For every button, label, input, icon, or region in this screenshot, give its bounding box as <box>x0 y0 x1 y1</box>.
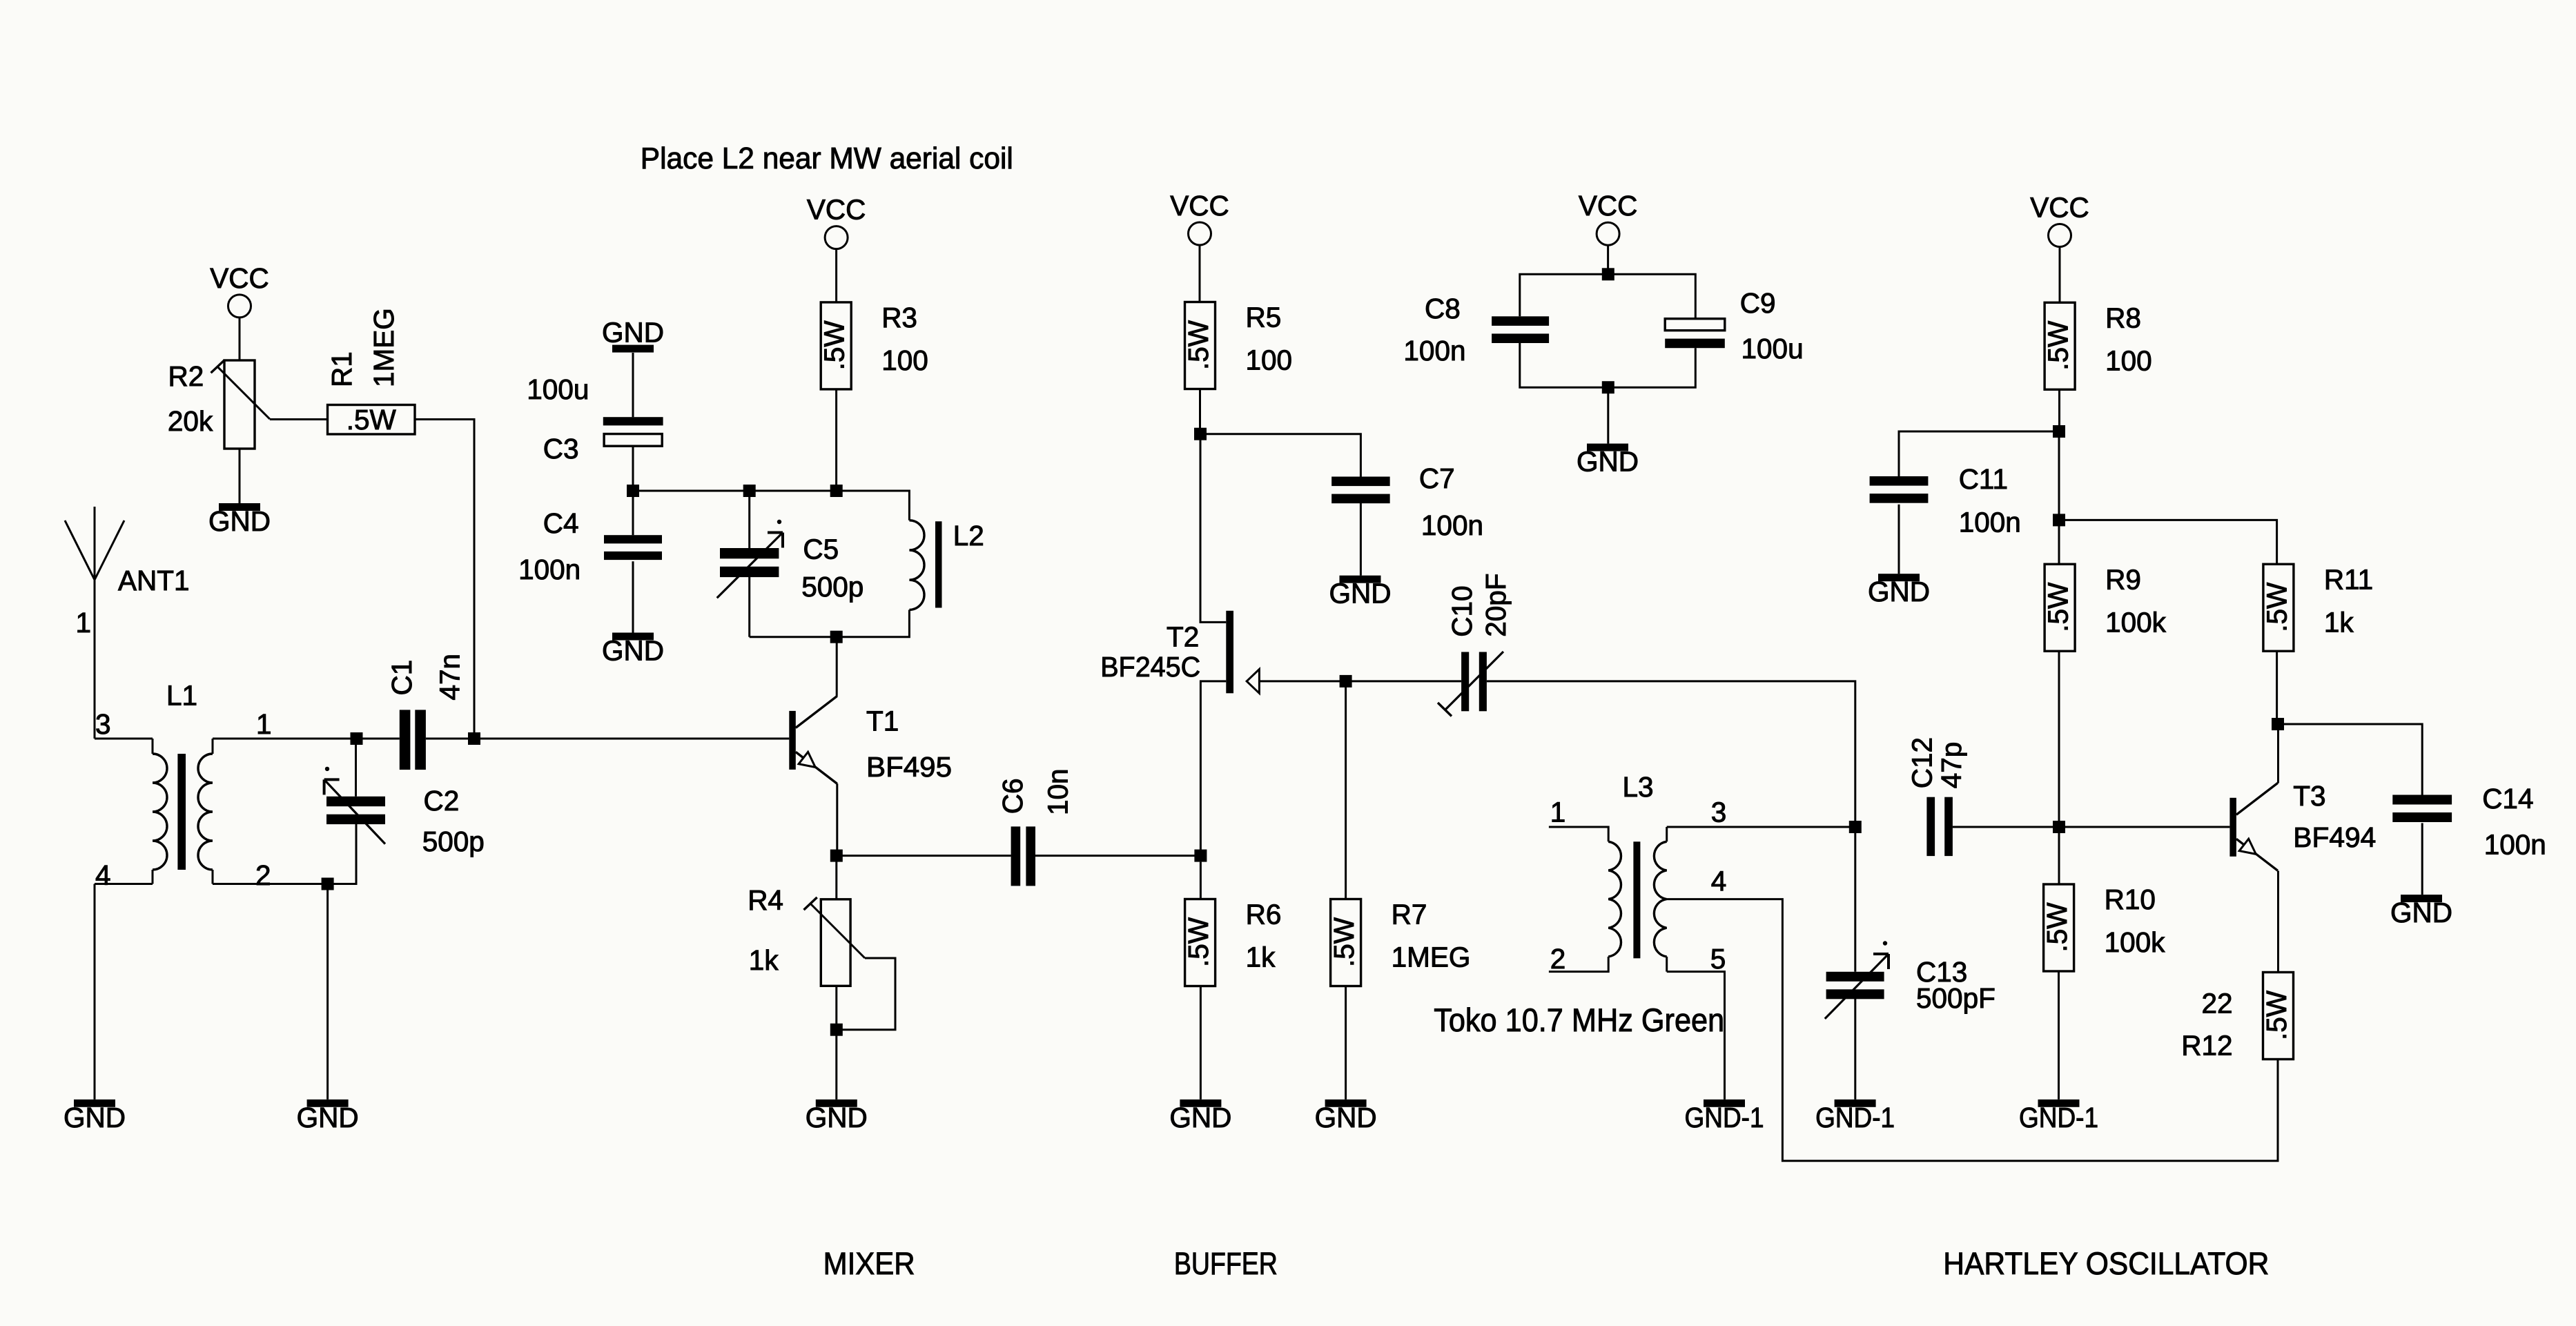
wire C5 bottom <box>748 575 750 636</box>
ground GND symbol (below R4) <box>806 1100 868 1133</box>
wire node to C7 <box>1200 434 1360 477</box>
label C8 100n <box>1403 293 1465 367</box>
capacitor C4 (100n) plates <box>604 535 662 560</box>
svg-text:GND: GND <box>208 505 271 537</box>
svg-text:.5W: .5W <box>2041 902 2073 953</box>
transistor T3 (BF494) NPN <box>2229 783 2278 870</box>
wire node to R9 <box>2058 520 2060 564</box>
junction node R11/T3-collector/C14 node <box>2272 718 2284 730</box>
wire node to C13 <box>1854 827 1856 972</box>
label C12 47p <box>1906 737 1968 788</box>
svg-text:20k: 20k <box>168 405 213 437</box>
svg-text:1: 1 <box>256 708 272 740</box>
junction node C2 top node <box>351 732 363 745</box>
svg-text:C8: C8 <box>1425 293 1461 324</box>
junction node C5 top node <box>743 485 756 497</box>
transistor T1 (BF495) NPN <box>789 696 837 783</box>
wire emitter node to R4 <box>835 856 837 899</box>
ground GND symbol (below L1 pin4) <box>64 1100 126 1133</box>
svg-text:1k: 1k <box>749 944 779 976</box>
wire T2 gate line <box>1259 680 1461 682</box>
svg-text:C4: C4 <box>543 507 579 539</box>
capacitor C14 (100n) plates <box>2392 795 2452 823</box>
label C4 100n <box>518 507 580 585</box>
wire VCC to R2 <box>239 318 241 360</box>
wire node down to T2 drain <box>1200 434 1226 623</box>
svg-text:R12: R12 <box>2181 1030 2232 1062</box>
L3 right coil <box>1654 841 1666 957</box>
svg-text:C5: C5 <box>803 533 839 565</box>
svg-text:C10: C10 <box>1446 586 1478 637</box>
svg-text:C7: C7 <box>1419 462 1455 494</box>
wire R6 to GND <box>1200 986 1202 1100</box>
ground GND symbol (below C2) <box>297 1100 359 1133</box>
svg-text:5: 5 <box>1710 943 1726 975</box>
label C13 500pF <box>1916 956 1996 1014</box>
svg-text:100u: 100u <box>1741 333 1804 364</box>
variable arrow of C5 <box>717 520 783 598</box>
capacitor C10 (20pF) trimmer plates <box>1461 652 1487 712</box>
svg-text:C1: C1 <box>386 660 418 696</box>
svg-text:.5W: .5W <box>2261 990 2292 1040</box>
svg-text:1k: 1k <box>2324 606 2354 638</box>
L3 core bar <box>1633 841 1640 958</box>
svg-text:R4: R4 <box>748 884 783 916</box>
ground GND symbol (below C8/C9) <box>1577 444 1639 478</box>
label R5 100 <box>1246 302 1293 376</box>
potentiometer R4 wiper arrow <box>804 897 866 958</box>
capacitor C13 (500pF) variable plates <box>1826 972 1884 1000</box>
variable arrow of C2 <box>324 767 385 844</box>
label C6 10n <box>997 768 1074 815</box>
svg-text:2: 2 <box>1550 943 1566 975</box>
ground GND symbol (below R2) <box>208 503 271 537</box>
svg-text:C11: C11 <box>1959 463 2008 495</box>
wire R7 to GND <box>1345 986 1347 1100</box>
svg-text:GND-1: GND-1 <box>1685 1102 1764 1133</box>
svg-text:2: 2 <box>255 859 271 891</box>
svg-text:BF495: BF495 <box>866 751 952 783</box>
junction node GND bus node <box>1602 381 1614 393</box>
svg-text:.5W: .5W <box>2261 582 2292 632</box>
ground GND symbol (above C3) <box>602 317 664 353</box>
wire R2 bottom to GND <box>239 449 241 503</box>
wire L3 pin3 to junction <box>1667 826 1855 828</box>
svg-text:.5W: .5W <box>2042 582 2074 632</box>
label C14 100n <box>2482 783 2546 860</box>
wire C3 to bus node <box>632 446 634 491</box>
power VCC symbol (above R2) <box>210 262 269 318</box>
svg-text:Toko 10.7 MHz Green: Toko 10.7 MHz Green <box>1434 1002 1724 1038</box>
L3 pin1 wire <box>1549 827 1608 841</box>
svg-text:R6: R6 <box>1246 899 1282 930</box>
wire C10 to oscillator <box>1487 681 1855 827</box>
svg-text:GND: GND <box>602 317 664 349</box>
capacitor C5 (500p) variable plates <box>720 548 779 577</box>
wire GND to C3 <box>632 353 634 417</box>
wire node to R10 <box>2058 827 2060 884</box>
transistor T2 (BF245C) N-JFET <box>1200 611 1259 856</box>
svg-text:3: 3 <box>1711 796 1727 828</box>
svg-text:100n: 100n <box>1403 335 1465 367</box>
svg-text:GND-1: GND-1 <box>2019 1102 2098 1133</box>
svg-text:R9: R9 <box>2105 563 2141 595</box>
svg-text:VCC: VCC <box>210 262 269 294</box>
svg-text:GND: GND <box>1577 446 1639 478</box>
label R1 1MEG <box>326 308 400 387</box>
C8/C9 bottom bus wire <box>1520 342 1696 388</box>
resistor R5 (100) body <box>1182 302 1216 389</box>
L3 pin5 stub <box>1666 957 1668 972</box>
wire T1 emitter down <box>836 783 838 855</box>
svg-text:100n: 100n <box>1421 509 1483 541</box>
resistor R9 (100k) body <box>2042 564 2076 651</box>
wire C4 to GND <box>632 561 634 632</box>
junction node R4 wiper tie node <box>830 1024 843 1036</box>
svg-text:GND: GND <box>1169 1102 1231 1133</box>
label R2 20k <box>168 360 213 437</box>
wire C6 to T2 source node <box>1035 855 1200 857</box>
wire C1 to T1 base <box>426 738 789 740</box>
potentiometer R4 (1k) body <box>821 899 850 986</box>
C8/C9 top bus wire <box>1520 274 1696 318</box>
svg-text:47p: 47p <box>1935 742 1967 789</box>
svg-text:R11: R11 <box>2324 563 2373 595</box>
svg-text:T3: T3 <box>2293 780 2325 812</box>
svg-text:20pF: 20pF <box>1480 573 1512 636</box>
svg-text:C3: C3 <box>543 433 579 465</box>
label T2 BF245C <box>1100 621 1200 683</box>
svg-text:R2: R2 <box>168 360 204 392</box>
junction node pin3/C12/C13 cross node <box>1849 821 1862 833</box>
svg-text:1MEG: 1MEG <box>368 308 400 387</box>
wire tank bus to R3 <box>633 490 837 492</box>
power VCC symbol (above R8) <box>2030 192 2089 247</box>
junction node L2 bottom / T1 collector node <box>830 631 843 643</box>
svg-text:100k: 100k <box>2105 606 2167 638</box>
svg-text:100: 100 <box>881 344 928 376</box>
svg-text:.5W: .5W <box>1182 917 1214 967</box>
junction node R5/C7/T2-drain node <box>1194 428 1207 440</box>
wire branch to R11 <box>2059 520 2277 564</box>
resistor R10 (100k) body <box>2041 884 2074 971</box>
svg-text:.5W: .5W <box>2042 320 2074 371</box>
wire L1 pin1 to C1 <box>213 738 400 740</box>
capacitor C11 (100n) plates <box>1870 476 1929 503</box>
antenna ANT1 <box>65 507 124 580</box>
svg-text:GND: GND <box>1868 576 1930 607</box>
capacitor C7 (100n) plates <box>1331 477 1390 504</box>
label C10 20pF <box>1446 573 1512 636</box>
svg-text:GND: GND <box>64 1102 126 1133</box>
transformer L1 <box>95 739 213 884</box>
wire bus to GND <box>1607 387 1609 443</box>
wire L1 pin4 to GND <box>94 884 96 1100</box>
capacitor C2 (500p) variable plates <box>326 797 385 824</box>
wire R4 bottom <box>835 986 837 1029</box>
L3 left coil <box>1608 841 1621 957</box>
svg-text:BF494: BF494 <box>2293 821 2376 853</box>
svg-text:100: 100 <box>2105 344 2152 376</box>
wire VCC to bus <box>1607 245 1609 274</box>
wire node to L2 top <box>837 491 910 520</box>
label R9 100k <box>2105 563 2167 638</box>
wire R11 to collector node <box>2276 651 2278 724</box>
svg-text:R1: R1 <box>326 351 358 387</box>
wire R9 to base node <box>2058 651 2060 827</box>
svg-text:47n: 47n <box>434 654 466 701</box>
capacitor C8 (100n) plates <box>1492 316 1549 343</box>
svg-text:C2: C2 <box>424 785 460 817</box>
resistor R3 (100) body <box>819 302 852 389</box>
wire L2 bottom <box>750 610 910 637</box>
svg-text:HARTLEY OSCILLATOR: HARTLEY OSCILLATOR <box>1943 1246 2269 1281</box>
wire R5 to C7 node <box>1199 389 1201 434</box>
inductor L2 coil <box>909 520 941 610</box>
L1 right coil <box>212 739 214 754</box>
label R10 100k <box>2105 884 2166 958</box>
svg-text:.5W: .5W <box>819 320 850 371</box>
ground GND symbol (below C11) <box>1868 574 1930 607</box>
svg-text:1: 1 <box>1550 796 1566 828</box>
resistor R11 (1k) body <box>2261 564 2294 651</box>
wire node to C11 <box>1899 431 2059 476</box>
resistor R6 (1k) body <box>1182 899 1216 986</box>
wire VCC to R5 <box>1199 245 1201 302</box>
label R8 100 <box>2105 302 2152 376</box>
svg-text:L1: L1 <box>166 680 197 712</box>
svg-text:100n: 100n <box>1959 506 2021 538</box>
ground GND symbol (below C7) <box>1329 576 1392 610</box>
L3 pin2 wire <box>1549 957 1608 972</box>
svg-text:R5: R5 <box>1246 302 1282 333</box>
capacitor C3 (100u) polarized plates <box>603 417 663 446</box>
svg-text:C12: C12 <box>1906 737 1938 788</box>
wire R10 to GND-1 <box>2058 972 2060 1100</box>
T2 gate arrow <box>1247 670 1259 694</box>
svg-text:.5W: .5W <box>347 404 397 436</box>
svg-text:MIXER: MIXER <box>823 1246 915 1281</box>
wire L3 pin4 loop to R12 bottom <box>1667 899 2278 1161</box>
T2 source wire <box>1200 681 1226 856</box>
wire R1 to node above C1 <box>415 420 474 739</box>
wire R3 to tank node <box>835 389 837 491</box>
wire C14 to GND <box>2421 823 2423 895</box>
svg-text:T1: T1 <box>866 705 899 737</box>
label T1 BF495 <box>866 705 952 783</box>
wire VCC to R8 <box>2059 247 2061 302</box>
svg-text:VCC: VCC <box>1170 190 1229 222</box>
junction node R9/R10/T3-base node <box>2053 821 2065 833</box>
wire node to GND below C2 <box>326 884 329 1100</box>
svg-text:100: 100 <box>1246 344 1293 376</box>
junction node C6/R6/T2-source node <box>1194 850 1207 862</box>
variable arrow of C13 <box>1825 941 1889 1019</box>
power VCC symbol (above C8/C9) <box>1579 190 1638 245</box>
wire antenna to L1 pin3 <box>94 580 96 739</box>
wire C2 top <box>355 739 357 797</box>
svg-text:ANT1: ANT1 <box>118 565 190 596</box>
junction node VCC bus node <box>1602 268 1614 280</box>
svg-text:GND: GND <box>2390 897 2452 928</box>
svg-text:VCC: VCC <box>807 194 866 226</box>
junction node R3/L2 top node <box>830 485 843 497</box>
svg-text:100k: 100k <box>2105 926 2166 958</box>
svg-text:L3: L3 <box>1623 771 1654 803</box>
wire L3 pin5 to GND-1 <box>1667 972 1725 1100</box>
junction node R8/C11 node <box>2053 425 2065 438</box>
potentiometer R2 wiper arrow <box>211 360 270 419</box>
R4 wiper loop wire <box>842 958 895 1030</box>
svg-text:GND: GND <box>1315 1102 1377 1133</box>
ground GND-1 symbol (below L3 pin5) <box>1685 1100 1764 1133</box>
wire node to R6 <box>1200 862 1202 899</box>
label C1 47n <box>386 654 466 701</box>
svg-text:T2: T2 <box>1167 621 1199 652</box>
svg-text:Place L2 near MW aerial coil: Place L2 near MW aerial coil <box>641 142 1013 175</box>
wire C7 to GND <box>1360 503 1362 576</box>
svg-text:C6: C6 <box>997 778 1028 814</box>
capacitor C12 (47p) plates <box>1926 797 1953 856</box>
junction node L1 pin2 GND branch <box>322 878 334 890</box>
svg-text:VCC: VCC <box>2030 192 2089 224</box>
power VCC symbol (above R3) <box>807 194 866 249</box>
label R4 1k <box>748 884 783 976</box>
svg-text:BUFFER: BUFFER <box>1174 1246 1278 1281</box>
L2 core bar <box>935 521 942 607</box>
svg-text:BF245C: BF245C <box>1100 651 1200 683</box>
label R3 100 <box>881 302 928 376</box>
wire gate node to R7 <box>1345 681 1347 899</box>
ground GND symbol (below C4) <box>602 633 664 667</box>
ground GND symbol (below R7) <box>1315 1100 1377 1133</box>
svg-text:GND: GND <box>1329 578 1392 610</box>
wire R8 down to C11 node <box>2058 389 2060 431</box>
L3 pin3 stub <box>1666 827 1668 841</box>
svg-text:VCC: VCC <box>1579 190 1638 222</box>
wire T3 collector up <box>2277 724 2279 783</box>
label R11 1k <box>2324 563 2373 638</box>
label C2 500p <box>422 785 485 857</box>
svg-text:C14: C14 <box>2482 783 2533 815</box>
wire node to T1 collector <box>836 637 838 696</box>
junction node C3/C4 tank node <box>627 485 639 497</box>
resistor R12 (22) body <box>2261 973 2294 1060</box>
wire R2 wiper to R1 <box>270 418 328 420</box>
label 100u C3 <box>527 373 589 465</box>
svg-text:.5W: .5W <box>1182 320 1214 370</box>
svg-text:100u: 100u <box>527 373 589 405</box>
svg-text:100n: 100n <box>518 554 580 585</box>
ground GND symbol (below R6) <box>1169 1100 1231 1133</box>
wire C11 node to R9 node <box>2058 431 2060 520</box>
transformer L3 <box>1549 827 1667 972</box>
capacitor C1 (47n) plates <box>400 710 426 770</box>
svg-text:10n: 10n <box>1042 768 1074 815</box>
svg-text:500pF: 500pF <box>1916 982 1996 1014</box>
label R12 22 <box>2181 988 2232 1062</box>
svg-text:100n: 100n <box>2484 828 2546 860</box>
svg-text:1: 1 <box>75 607 91 638</box>
wire C11 to GND <box>1898 505 1900 574</box>
label C11 100n <box>1959 463 2021 538</box>
junction node R1 drop node <box>468 732 480 745</box>
svg-text:1k: 1k <box>1246 942 1276 973</box>
svg-text:GND: GND <box>297 1102 359 1133</box>
capacitor C6 (10n) plates <box>1011 826 1035 886</box>
svg-text:3: 3 <box>95 708 111 740</box>
wire L1 pin2 to C2 bottom <box>213 823 356 884</box>
wire node to C4 <box>632 491 634 535</box>
wire R4 node to GND <box>835 1030 837 1100</box>
resistor R8 (100) body <box>2042 302 2076 389</box>
svg-text:L2: L2 <box>953 520 984 552</box>
resistor R1 (1MEG) body <box>328 404 416 436</box>
trimmer adjustment mark of C10 <box>1438 652 1503 716</box>
svg-text:R10: R10 <box>2105 884 2156 915</box>
resistor R7 (1MEG) body <box>1328 899 1361 986</box>
svg-text:GND: GND <box>806 1102 868 1133</box>
wire collector node to C14 <box>2278 724 2422 795</box>
label R6 1k <box>1246 899 1282 973</box>
ground GND-1 symbol (below C13) <box>1815 1100 1895 1133</box>
label T3 BF494 <box>2293 780 2376 853</box>
capacitor C9 (100u) polarized plates <box>1665 319 1725 349</box>
svg-text:R7: R7 <box>1392 899 1427 930</box>
svg-text:500p: 500p <box>801 571 863 603</box>
ground GND symbol (below C14) <box>2390 895 2452 928</box>
svg-text:GND-1: GND-1 <box>1815 1102 1895 1133</box>
L1 core bar <box>177 754 186 870</box>
wire node to C5 <box>748 491 750 548</box>
junction node R9/R11 branch node <box>2053 514 2065 526</box>
svg-text:4: 4 <box>1711 866 1727 897</box>
svg-text:.5W: .5W <box>1328 917 1360 967</box>
svg-text:1MEG: 1MEG <box>1392 942 1471 973</box>
svg-text:4: 4 <box>95 859 111 891</box>
potentiometer R2 (20k) body <box>224 360 255 449</box>
label C7 100n <box>1419 462 1483 541</box>
svg-text:R3: R3 <box>881 302 917 333</box>
svg-text:500p: 500p <box>422 826 485 857</box>
wire VCC to R3 <box>835 249 837 302</box>
wire emitter node to C6 <box>837 855 1011 857</box>
wire C13 to GND-1 <box>1854 998 1856 1100</box>
svg-text:GND: GND <box>602 635 664 667</box>
svg-text:R8: R8 <box>2105 302 2141 333</box>
junction node gate/R7 node <box>1340 675 1352 688</box>
wire C12 to T3 base <box>1953 826 2230 828</box>
junction node T1 emitter node <box>830 850 843 862</box>
label C5 500p <box>801 533 863 603</box>
label R7 1MEG <box>1392 899 1471 973</box>
wire T3 emitter to R12 <box>2277 871 2279 973</box>
label C9 100u <box>1740 287 1804 364</box>
power VCC symbol (above R5) <box>1170 190 1229 245</box>
ground GND-1 symbol (below R10) <box>2019 1100 2098 1133</box>
svg-text:C9: C9 <box>1740 287 1776 319</box>
svg-text:22: 22 <box>2201 988 2232 1020</box>
